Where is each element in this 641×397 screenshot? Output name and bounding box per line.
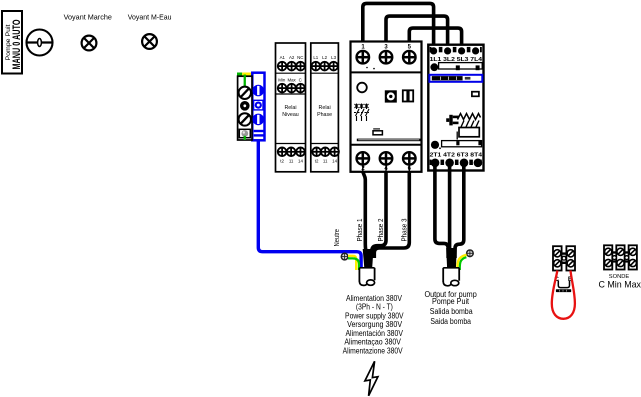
svg-text:Saida bomba: Saida bomba xyxy=(430,317,471,326)
svg-text:A1: A1 xyxy=(280,55,286,60)
svg-text:L1: L1 xyxy=(313,55,318,60)
svg-text:L2: L2 xyxy=(322,55,327,60)
svg-text:Alimentaçao 380V: Alimentaçao 380V xyxy=(344,338,401,347)
svg-text:14: 14 xyxy=(298,159,303,164)
svg-text:Min: Min xyxy=(278,77,286,82)
svg-text:Phase 2: Phase 2 xyxy=(378,218,385,241)
svg-text:C Min Max: C Min Max xyxy=(599,280,641,290)
svg-text:MANU 0 AUTO: MANU 0 AUTO xyxy=(11,19,23,69)
svg-text:Voyant Marche: Voyant Marche xyxy=(64,12,112,21)
svg-text:Phase 1: Phase 1 xyxy=(357,218,364,241)
svg-text:L3: L3 xyxy=(331,55,336,60)
svg-text:14: 14 xyxy=(332,159,337,164)
svg-text:(3Ph - N - T): (3Ph - N - T) xyxy=(356,303,393,312)
svg-text:t2: t2 xyxy=(315,159,319,164)
svg-text:A2: A2 xyxy=(289,55,295,60)
svg-text:Pompe Puit: Pompe Puit xyxy=(432,297,470,306)
svg-text:Relai: Relai xyxy=(284,105,296,111)
svg-text:NC: NC xyxy=(297,55,303,60)
svg-text:Voyant M-Eau: Voyant M-Eau xyxy=(128,12,172,21)
svg-text:Salida bomba: Salida bomba xyxy=(430,307,473,316)
svg-text:Versorgung 380V: Versorgung 380V xyxy=(347,320,403,329)
svg-text:C: C xyxy=(299,77,302,82)
svg-text:Neutre: Neutre xyxy=(334,229,341,247)
svg-text:Niveau: Niveau xyxy=(282,112,299,118)
svg-text:Relai: Relai xyxy=(319,105,331,111)
svg-text:Max: Max xyxy=(287,77,296,82)
svg-text:t2: t2 xyxy=(280,159,284,164)
svg-text:2T1 4T2 6T3 8T4: 2T1 4T2 6T3 8T4 xyxy=(430,152,482,158)
svg-text:Phase: Phase xyxy=(317,112,332,118)
svg-text:Alimentation 380V: Alimentation 380V xyxy=(346,294,403,303)
svg-text:Alimentación 380V: Alimentación 380V xyxy=(345,329,403,338)
svg-text:Alimentazione 380V: Alimentazione 380V xyxy=(343,347,404,356)
svg-text:11: 11 xyxy=(323,159,328,164)
svg-text:11: 11 xyxy=(289,159,294,164)
svg-text:Phase 3: Phase 3 xyxy=(402,218,409,241)
